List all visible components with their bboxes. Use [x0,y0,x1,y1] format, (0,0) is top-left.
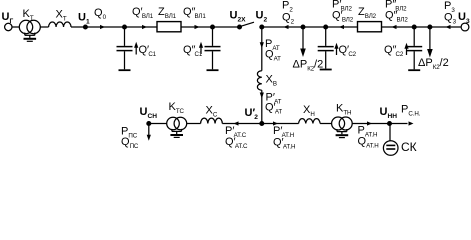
arrow PСН right [409,121,414,125]
node C1 junction [123,25,127,29]
svg-text:U1: U1 [78,12,90,26]
label QС1 [139,44,157,58]
svg-text:СК: СК [401,140,417,154]
wire AT vertical [261,27,263,71]
wire [125,26,158,28]
label QАТН [273,137,295,151]
svg-text:Q2: Q2 [282,12,295,26]
arrow QС1 up [135,47,137,55]
arrow QВЛ1 [142,25,147,29]
wire [181,26,213,28]
arrow P3Q3 left [446,25,451,29]
svg-text:U′2: U′2 [245,107,259,121]
label KТ [23,8,34,22]
ground [170,135,183,137]
wire [149,123,167,125]
label PВЛ2b [385,0,407,13]
svg-text:Q0: Q0 [94,7,107,21]
node C2b junction [412,25,416,29]
label PСН [401,104,421,118]
svg-text:U3: U3 [458,11,470,25]
wire [262,123,299,125]
capacitor C2b shunt [406,27,422,70]
resistor ZВЛ1 [157,22,181,32]
wire [320,123,331,125]
arrow dPK2L down [302,27,304,49]
label PПС [121,126,138,140]
wire [12,26,19,28]
svg-text:Q′С1: Q′С1 [139,44,157,58]
svg-text:KТН: KТН [336,103,351,117]
label ZВЛ1 [158,6,177,20]
label QВЛ2b [385,10,408,24]
arrow dPK2R down [429,27,431,50]
arrow PВЛ2a left [339,25,344,29]
svg-text:KТС: KТС [169,101,185,115]
node C1b junction [211,25,215,29]
node UНН [388,122,392,126]
node UСН [147,122,151,126]
inductor XС [201,118,223,123]
transformer KТ [19,20,40,38]
ground [336,135,349,137]
label QАТН2 [358,136,379,150]
resistor ZВЛ2 [358,22,382,32]
arrow PАТ down [260,42,264,48]
arrow PВЛ2b left [392,25,397,29]
label QС2a [339,44,357,58]
label XТ [56,9,67,23]
label QАТ2 [265,102,282,116]
svg-text:XВ: XВ [266,74,277,88]
label СК [401,140,417,154]
label dPK2R [418,57,449,71]
svg-text:XН: XН [303,104,315,118]
label QВЛ1b [183,6,206,20]
label U3 [458,11,470,25]
terminal UГ [5,23,12,30]
wire [71,26,125,28]
label U2b [245,107,259,121]
svg-text:ZВЛ2: ZВЛ2 [358,6,377,20]
arrow PАТ2 down [260,93,264,99]
node U2 [260,25,264,29]
wire [382,26,462,28]
compensator SK [383,141,398,156]
label UСН [140,106,158,120]
label ZВЛ2 [358,6,377,20]
label QС1b [183,44,203,58]
label XН [303,104,315,118]
svg-text:UГ: UГ [2,11,14,25]
wire [40,26,48,28]
svg-text:U2: U2 [256,10,268,24]
label QВЛ1 [132,6,154,20]
inductor XВ [257,71,261,91]
ground [24,39,37,42]
svg-text:Q″ВЛ1: Q″ВЛ1 [183,6,206,20]
arrow PПС down [148,124,150,136]
svg-text:KТ: KТ [23,8,34,22]
svg-text:ZВЛ1: ZВЛ1 [158,6,177,20]
svg-text:Q′ВЛ1: Q′ВЛ1 [132,6,154,20]
arrow PАТС left [234,121,239,125]
svg-text:ΔPК2/2: ΔPК2/2 [418,57,449,71]
svg-text:U2X: U2X [230,10,247,24]
wire [262,26,358,28]
label dPK2L [293,58,324,72]
node C2a junction [324,25,328,29]
transformer KТН [332,117,353,134]
label XВ [266,74,277,88]
svg-text:UНН: UНН [380,106,398,120]
wire [187,123,201,125]
wire [352,123,389,125]
arrow PАТН2 right [367,121,372,125]
node dPK2L junction [301,25,305,29]
label KТС [169,101,185,115]
label XС [206,105,218,119]
wire SK [389,124,391,141]
node U2b [260,122,264,126]
arrow QС1b up [200,47,202,55]
label U1 [78,12,90,26]
label Q0 [94,7,107,21]
svg-text:XТ: XТ [56,9,67,23]
label U2X [230,10,247,24]
label P3 [444,0,455,14]
inductor XТ [49,22,71,27]
wire [390,123,408,125]
svg-text:PС.Н.: PС.Н. [401,104,421,118]
label PАТ2 [266,92,282,106]
capacitor C1b shunt [205,27,221,70]
label PАТС [225,125,247,139]
arrow QС2a up [336,48,338,56]
label QПС [121,136,139,150]
wire [213,26,240,28]
svg-text:XС: XС [206,105,218,119]
arrow QВЛ1b [195,25,200,29]
label UГ [2,11,14,25]
capacitor C1 shunt [117,27,133,70]
arrow PАТН left-branch right [273,121,278,125]
node dPK2R junction [428,25,432,29]
label U2 [256,10,268,24]
terminal U3 [461,23,469,31]
label QАТ [265,48,281,62]
label PАТН [273,125,294,139]
capacitor C2a shunt [318,27,334,70]
svg-text:Q″С2: Q″С2 [384,44,404,58]
wire [222,123,261,125]
arrow Q0 [100,25,105,29]
svg-text:ΔPК2/2: ΔPК2/2 [293,58,324,72]
svg-text:UСН: UСН [140,106,158,120]
label Q3 [444,12,457,26]
node U1 [84,25,88,29]
label QАТС [225,136,248,150]
arrow P2Q2 left [284,25,289,29]
inductor XН [299,119,321,124]
label UНН [380,106,398,120]
label KТН [336,103,351,117]
switch blade [240,22,255,27]
label QС2b [384,44,404,58]
svg-text:Q′С2: Q′С2 [339,44,357,58]
arrow QС2b up [406,48,408,56]
label PАТ [265,38,280,52]
label Q2 [282,12,295,26]
label QВЛ2a [332,10,354,24]
label P2 [282,0,293,14]
label PВЛ2a [332,0,353,13]
transformer KТС [167,117,187,134]
wire [261,90,263,123]
node U2X [238,25,242,29]
label PАТН2 [358,125,378,139]
